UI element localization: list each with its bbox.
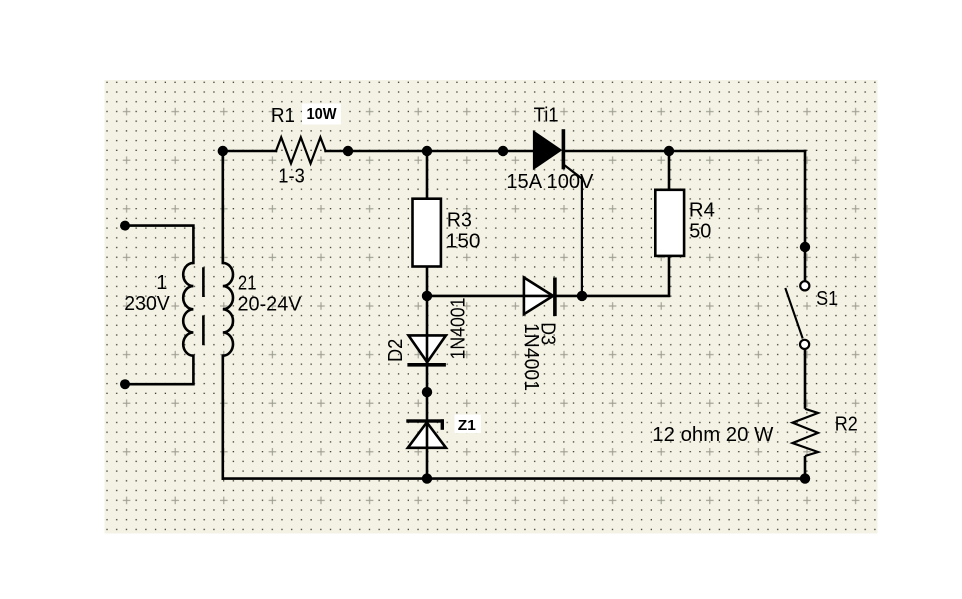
resistor R4 bbox=[655, 190, 684, 256]
transformer core bbox=[202, 267, 205, 345]
wire R3 bottom bbox=[426, 267, 429, 296]
node R4 top bbox=[664, 146, 674, 156]
svg-text:R3: R3 bbox=[447, 210, 472, 232]
node switch top bbox=[800, 242, 810, 252]
svg-text:R1: R1 bbox=[271, 105, 295, 127]
node Z1 bottom bbox=[422, 473, 432, 483]
label Z1 value bbox=[455, 415, 482, 435]
wire R3 top bbox=[426, 151, 429, 199]
wire right column upper bbox=[804, 151, 807, 282]
wire primary top lead bbox=[125, 226, 193, 263]
diode D2 bbox=[407, 296, 446, 392]
terminal dot primary bottom bbox=[120, 379, 130, 389]
svg-text:15A 100V: 15A 100V bbox=[506, 171, 594, 193]
wire primary bottom lead bbox=[125, 356, 193, 385]
resistor R3 bbox=[413, 199, 441, 267]
label R1 value 10W bbox=[302, 104, 341, 125]
terminal dot primary top bbox=[120, 221, 130, 231]
svg-text:Z1: Z1 bbox=[458, 417, 476, 434]
svg-text:1: 1 bbox=[156, 272, 167, 294]
wire top rail middle bbox=[326, 150, 534, 153]
wire below switch bbox=[804, 349, 807, 409]
wire top rail right bbox=[563, 150, 805, 153]
wire R4 top bbox=[668, 151, 671, 190]
svg-text:S1: S1 bbox=[816, 288, 838, 310]
svg-text:20-24V: 20-24V bbox=[238, 294, 303, 316]
switch S1 bbox=[785, 281, 809, 409]
svg-text:1N4001: 1N4001 bbox=[520, 323, 542, 391]
svg-text:21: 21 bbox=[238, 273, 257, 295]
wire D3 row bbox=[427, 295, 582, 298]
resistor R1 bbox=[276, 137, 326, 163]
transformer T1 secondary winding bbox=[223, 263, 233, 356]
svg-text:R4: R4 bbox=[689, 200, 715, 222]
node top rail at transformer bbox=[218, 146, 228, 156]
wire secondary top bbox=[222, 151, 225, 263]
svg-text:D2: D2 bbox=[385, 339, 407, 362]
svg-text:50: 50 bbox=[689, 220, 711, 242]
switch S1 bottom contact bbox=[800, 340, 809, 349]
wire Ti1 gate bbox=[565, 165, 582, 296]
switch S1 lever bbox=[785, 288, 802, 339]
svg-text:150: 150 bbox=[446, 230, 481, 252]
resistor R2 bbox=[793, 409, 819, 456]
wire top rail left segment bbox=[223, 150, 276, 153]
svg-text:230V: 230V bbox=[124, 293, 170, 315]
wire bottom rail bbox=[223, 477, 805, 480]
svg-text:Ti1: Ti1 bbox=[534, 104, 559, 126]
svg-text:R2: R2 bbox=[835, 413, 858, 435]
diode D3 bbox=[427, 278, 582, 317]
switch S1 top contact bbox=[800, 281, 809, 290]
svg-text:1N4001: 1N4001 bbox=[447, 298, 469, 360]
thyristor Ti1 bbox=[533, 129, 582, 296]
node before Ti1 bbox=[498, 146, 508, 156]
wire R4 bottom bbox=[582, 256, 669, 296]
node D3 left bbox=[422, 291, 432, 301]
wire secondary bottom bbox=[222, 356, 225, 479]
zener diode Z1 bbox=[406, 392, 446, 479]
wire R2 bottom bbox=[804, 456, 807, 479]
svg-text:10W: 10W bbox=[307, 106, 338, 123]
svg-text:1-3: 1-3 bbox=[278, 166, 305, 188]
node R3 top bbox=[422, 146, 432, 156]
wire D2 column bbox=[426, 296, 429, 392]
svg-text:12 ohm 20 W: 12 ohm 20 W bbox=[652, 424, 773, 446]
node after R1 bbox=[343, 146, 353, 156]
node R2 bottom bbox=[800, 473, 810, 483]
node gate junction bbox=[577, 291, 587, 301]
transformer T1 primary winding bbox=[183, 263, 193, 356]
node D2-Z1 bbox=[422, 387, 432, 397]
wire Z1 column bbox=[426, 392, 429, 479]
